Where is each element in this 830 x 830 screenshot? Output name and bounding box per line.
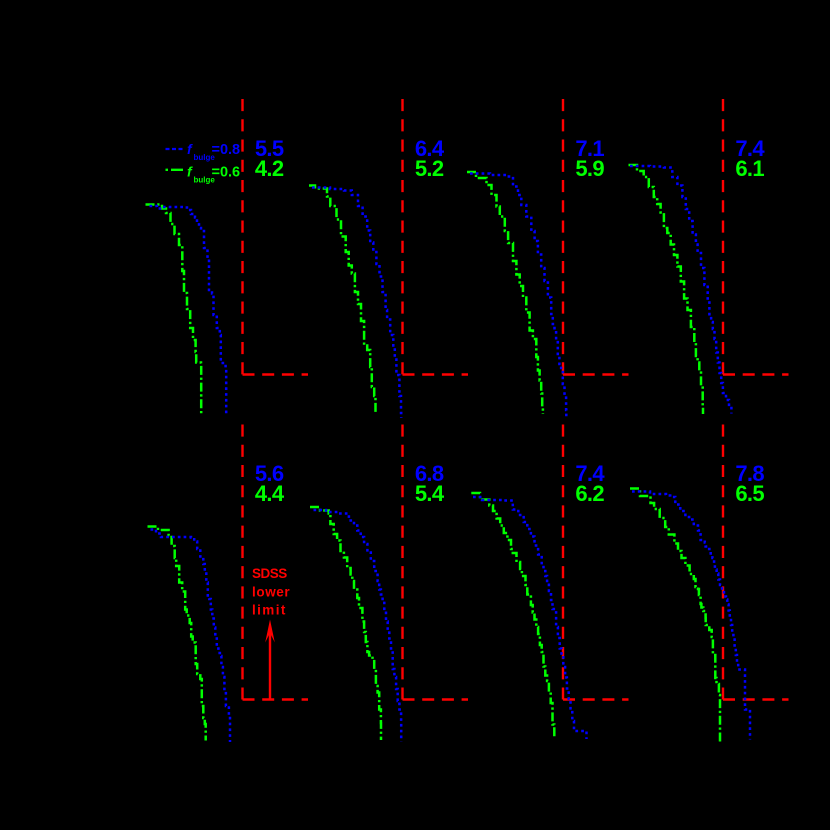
svg-text:4.4: 4.4 [255,481,285,506]
row1 panel3 green dash-dot curve [467,172,543,414]
red dashed SDSS limit line, bottom row, panel 4 [722,425,724,700]
row1 panel2 green dash-dot curve [309,186,376,415]
svg-text:lower: lower [252,585,290,600]
row2 panel3 blue dotted curve [473,497,587,739]
svg-text:5.2: 5.2 [415,156,444,181]
svg-text:4.2: 4.2 [255,156,284,181]
row2 panel4 green dash-dot curve [630,489,720,743]
svg-text:6.2: 6.2 [575,481,604,506]
row1 panel3 blue dotted curve [470,174,566,418]
svg-text:5.9: 5.9 [575,156,604,181]
red dashed SDSS limit line, bottom row, panel 1 [241,425,243,700]
row1 panel4 green dash-dot curve [629,165,704,414]
legend green dash-dot line sample [166,169,185,171]
svg-text:=0.8: =0.8 [212,142,241,158]
row1 panel4 blue dotted curve [630,166,731,414]
svg-text:6.1: 6.1 [735,156,764,181]
row2 panel1 blue dotted curve [151,530,231,743]
row2 panel4 blue dotted curve [632,492,750,740]
svg-text:5.4: 5.4 [415,481,445,506]
row2 panel2 green dash-dot curve [310,507,381,740]
svg-text:=0.6: =0.6 [212,164,241,180]
svg-text:SDSS: SDSS [252,566,287,581]
row2 panel2 blue dotted curve [314,510,402,742]
red dashed SDSS limit line, top row, panel 1 [241,99,243,375]
red dashed SDSS limit line, bottom row, panel 3 [562,425,564,700]
row1 panel2 blue dotted curve [312,188,401,419]
row1 panel1 green dash-dot curve f_bulge=0.6 [146,205,202,415]
red dashed SDSS limit line, bottom row, panel 2 [401,425,403,700]
red dashed SDSS limit line, top row, panel 4 [722,99,724,375]
annotation red arrow pointing up to the limit text [269,629,271,700]
svg-text:limit: limit [252,602,287,617]
red dashed SDSS limit line, top row, panel 2 [401,99,403,375]
row1 panel1 blue dotted curve f_bulge=0.8 [150,206,227,415]
row2 panel1 green dash-dot curve [148,527,206,741]
red dashed SDSS limit line, top row, panel 3 [562,99,564,375]
svg-text:6.5: 6.5 [735,481,764,506]
legend blue dotted line sample [166,148,183,150]
row2 panel3 green dash-dot curve [471,493,554,739]
